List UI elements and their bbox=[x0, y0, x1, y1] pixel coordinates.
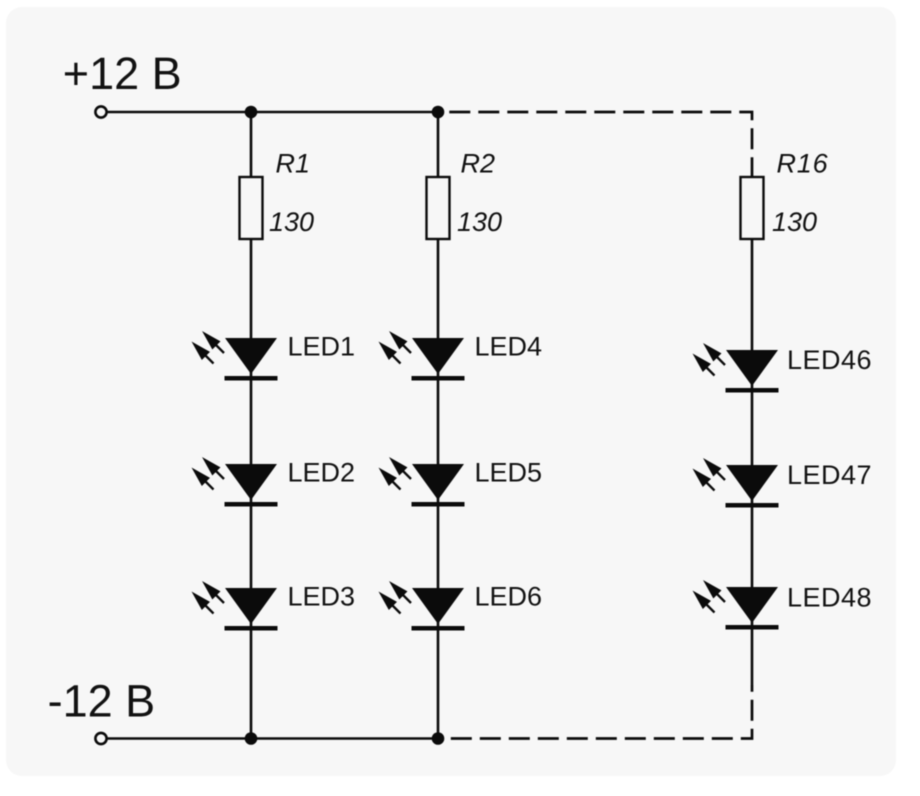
svg-text:LED4: LED4 bbox=[475, 332, 543, 362]
svg-text:+12 В: +12 В bbox=[63, 48, 182, 99]
svg-text:LED5: LED5 bbox=[475, 458, 543, 488]
svg-text:LED47: LED47 bbox=[787, 460, 872, 490]
svg-text:-12 В: -12 В bbox=[48, 676, 156, 727]
svg-text:R16: R16 bbox=[777, 149, 829, 179]
svg-text:LED1: LED1 bbox=[288, 332, 356, 362]
svg-text:R2: R2 bbox=[461, 149, 496, 179]
svg-text:LED2: LED2 bbox=[288, 458, 356, 488]
svg-text:R1: R1 bbox=[276, 149, 311, 179]
svg-text:LED48: LED48 bbox=[787, 583, 872, 613]
svg-text:130: 130 bbox=[269, 207, 314, 237]
svg-text:LED3: LED3 bbox=[288, 582, 356, 612]
svg-text:130: 130 bbox=[772, 207, 817, 237]
svg-text:LED6: LED6 bbox=[475, 582, 543, 612]
svg-text:130: 130 bbox=[457, 207, 502, 237]
svg-text:LED46: LED46 bbox=[787, 345, 872, 375]
